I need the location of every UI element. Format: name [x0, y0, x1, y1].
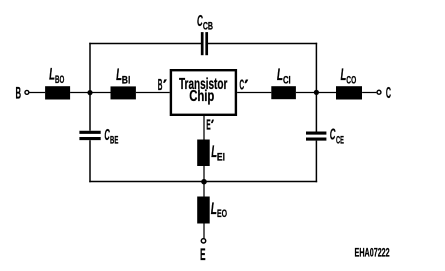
- svg-text:L: L: [211, 198, 217, 217]
- svg-text:CB: CB: [203, 20, 213, 33]
- svg-text:CE: CE: [336, 133, 344, 146]
- svg-text:E: E: [206, 118, 210, 133]
- svg-text:EI: EI: [217, 151, 225, 163]
- svg-text:C: C: [330, 126, 336, 144]
- svg-text:EHA07222: EHA07222: [355, 247, 390, 260]
- svg-text:CI: CI: [283, 74, 291, 87]
- svg-text:L: L: [341, 65, 347, 83]
- svg-text:C: C: [239, 78, 244, 93]
- svg-text:C: C: [386, 84, 391, 102]
- svg-text:B: B: [16, 83, 22, 102]
- svg-text:E: E: [200, 245, 206, 264]
- svg-text:L: L: [49, 65, 55, 83]
- svg-text:CO: CO: [346, 74, 356, 86]
- svg-text:BI: BI: [122, 74, 131, 86]
- svg-text:BE: BE: [110, 134, 118, 146]
- svg-text:Chip: Chip: [189, 88, 214, 105]
- svg-text:BO: BO: [55, 73, 64, 85]
- svg-text:L: L: [277, 66, 283, 84]
- svg-text:EO: EO: [217, 207, 227, 219]
- svg-text:B: B: [158, 77, 163, 94]
